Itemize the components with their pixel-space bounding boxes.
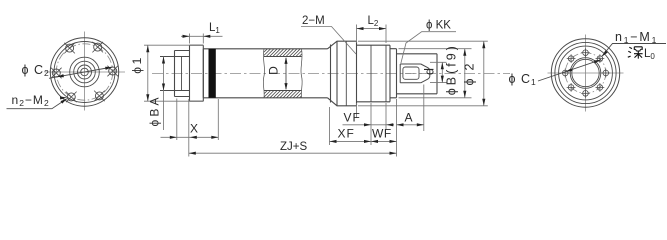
left view bolt hole 2: [94, 43, 102, 51]
svg-text:VF: VF: [344, 111, 361, 125]
X / ZJ+S left extension line: [188, 99, 190, 157]
ϕB(f9) extension lines: [399, 49, 472, 98]
right view tapped hole 7: [583, 91, 589, 97]
A right extension line: [423, 85, 425, 132]
ϕ1 extension lines: [144, 45, 203, 101]
flange thickness extension line: [176, 99, 178, 141]
X right extension line: [217, 99, 219, 140]
flange inner face line: [345, 41, 347, 106]
XF left extension line (flange face): [329, 107, 331, 145]
svg-text:X: X: [190, 122, 198, 136]
ZJ+S dimension line: [189, 152, 397, 154]
cover inner lines: [371, 45, 386, 102]
WF/ZJ+S/A extension line (spigot face): [396, 99, 398, 157]
housing cover section (L2): [357, 45, 391, 102]
dimension D (bore): [285, 58, 287, 89]
ϕBA dimension line: [163, 57, 165, 131]
right view tapped hole 4: [568, 56, 574, 62]
WF dimension line: [371, 140, 397, 142]
shaft end section: [397, 54, 438, 94]
side view main centerline: [152, 73, 510, 75]
broken-out section hatching (bottom): [264, 91, 302, 98]
d dimension line: [441, 62, 443, 82]
right view tapped hole 3: [583, 50, 589, 56]
right view tapped hole 8: [597, 85, 603, 91]
bore lines of broken-out section: [264, 57, 302, 91]
right view tapped hole 2: [597, 56, 603, 62]
ϕ1 dimension line: [147, 45, 149, 101]
left view bolt hole 5: [67, 93, 75, 101]
left view bolt hole 6: [95, 92, 103, 100]
left flange end view: [45, 32, 126, 111]
L2 extension lines: [357, 25, 387, 44]
left view bolt hole 4: [52, 69, 60, 77]
ϕKK leader with underline: [401, 32, 456, 64]
d arrows: [441, 62, 444, 69]
left view outer rim circle: [50, 38, 118, 106]
L1 dimension line: [181, 35, 223, 37]
ϕB(f9) dimension line: [464, 49, 466, 98]
keyway slot outer outline: [400, 64, 430, 83]
VF arrows (outside): [364, 123, 371, 126]
svg-text:ZJ+S: ZJ+S: [280, 141, 307, 153]
right view rim circles: [551, 39, 619, 107]
d extension lines: [430, 62, 447, 82]
left view centerlines: [45, 32, 126, 111]
label 深L0 (depth): [628, 47, 643, 59]
L2 arrows: [357, 27, 364, 30]
left view inner rim circle: [54, 42, 115, 103]
left view hub circles: [81, 68, 89, 76]
XF arrows: [330, 140, 337, 143]
right view tapped hole 6: [568, 85, 574, 91]
ϕ1 arrows: [146, 45, 149, 52]
left view bolt hole 3: [66, 44, 74, 52]
ϕBA arrows: [162, 57, 165, 64]
right view centerlines: [548, 35, 624, 112]
svg-text:WF: WF: [372, 127, 392, 141]
ϕ2 arrows: [482, 41, 485, 48]
pilot flange recess lines (ϕBA bore): [160, 57, 190, 91]
WF arrows: [371, 140, 378, 143]
A dimension line: [397, 124, 424, 126]
broken-out section hatching (top): [264, 49, 302, 57]
svg-text:A: A: [405, 111, 413, 125]
A arrows: [397, 123, 404, 126]
ZJ+S arrows: [189, 152, 196, 155]
dimension line ϕC2 (bolt circle diameter): [49, 67, 113, 78]
svg-text:ϕBA: ϕBA: [148, 98, 162, 127]
L1 arrows (outside): [183, 35, 190, 38]
main body section: [203, 49, 327, 98]
X dimension line: [161, 136, 219, 138]
right view tapped hole 5: [562, 70, 568, 76]
centering spigot collar ϕB(f9): [390, 49, 397, 98]
svg-text:ϕ KK: ϕ KK: [426, 20, 451, 32]
left pilot flange section: [175, 51, 190, 97]
svg-text:D: D: [267, 66, 281, 75]
keyway slot inner outline: [403, 67, 419, 79]
XF dimension line: [330, 140, 372, 142]
VF right extension line: [385, 103, 387, 129]
retaining ring (ϕ1, width L1): [190, 45, 204, 101]
right view tapped hole 1: [603, 70, 609, 76]
svg-text:2−M: 2−M: [302, 15, 325, 27]
ϕ2 extension lines: [358, 41, 488, 106]
mounting flange ϕ2 section with chamfered corners: [328, 41, 357, 106]
VF dimension line: [343, 124, 395, 126]
VF/XF/WF shared extension line: [370, 103, 372, 145]
flange thickness arrow (outside): [170, 136, 177, 139]
svg-text:d: d: [423, 68, 437, 75]
left view bolt hole 1: [109, 67, 117, 75]
X arrows: [190, 136, 197, 139]
L1 extension lines: [190, 34, 204, 44]
ϕB(f9) arrows: [463, 49, 466, 56]
ϕ2 dimension line: [483, 41, 485, 106]
right view hub circles: [570, 58, 601, 89]
break lines (wavy): [263, 49, 264, 98]
L2 dimension line: [357, 28, 387, 30]
right flange end view: [548, 35, 624, 112]
2−M leader: [301, 27, 356, 55]
seal band (black): [209, 49, 216, 98]
dimension line ϕC1 (bolt circle diameter): [538, 60, 601, 81]
svg-text:XF: XF: [338, 126, 355, 140]
left view bolt circle (dash-dot): [56, 44, 112, 100]
right view bolt circle (dash-dot): [565, 53, 606, 94]
VF left extension line: [356, 103, 358, 118]
keyway centre dashes: [405, 73, 432, 75]
